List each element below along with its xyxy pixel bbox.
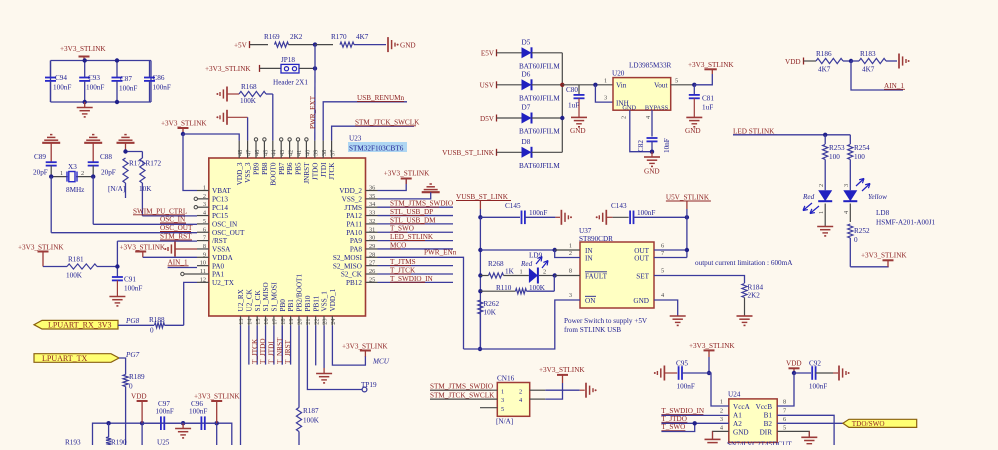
svg-text:100nF: 100nF <box>677 383 695 391</box>
svg-text:LPUART_RX_3V3: LPUART_RX_3V3 <box>48 321 112 330</box>
svg-text:1: 1 <box>818 211 825 214</box>
svg-text:PB11: PB11 <box>312 295 320 311</box>
svg-text:+3V3_STLINK: +3V3_STLINK <box>161 120 207 128</box>
svg-text:JTCK: JTCK <box>328 162 336 180</box>
svg-text:VSS_2: VSS_2 <box>342 195 363 203</box>
svg-text:18: 18 <box>280 319 287 325</box>
svg-text:3: 3 <box>604 95 607 102</box>
svg-text:21: 21 <box>305 319 312 325</box>
svg-text:output current limitation : 60: output current limitation : 600mA <box>695 259 793 267</box>
svg-text:U2_RX: U2_RX <box>237 288 245 311</box>
svg-text:OSC_IN: OSC_IN <box>212 221 238 229</box>
svg-text:FAULT: FAULT <box>585 272 608 280</box>
svg-text:100K: 100K <box>66 272 83 280</box>
svg-text:STL_USB_DP: STL_USB_DP <box>390 208 433 216</box>
svg-text:20pF: 20pF <box>101 169 116 177</box>
svg-text:25: 25 <box>369 276 375 283</box>
svg-text:STL_USB_DM: STL_USB_DM <box>390 216 436 224</box>
svg-text:100K: 100K <box>529 284 546 292</box>
svg-text:1: 1 <box>604 78 607 85</box>
svg-text:C80: C80 <box>566 86 578 94</box>
svg-text:C87: C87 <box>120 75 132 83</box>
svg-text:17: 17 <box>272 319 279 325</box>
svg-text:PA10: PA10 <box>346 229 362 237</box>
svg-text:OSC_OUT: OSC_OUT <box>160 224 193 232</box>
svg-text:MCO: MCO <box>390 241 406 249</box>
svg-text:AIN_1: AIN_1 <box>168 258 188 266</box>
svg-text:S1_CK: S1_CK <box>254 290 262 312</box>
svg-text:C94: C94 <box>55 74 67 82</box>
svg-text:LPUART_TX: LPUART_TX <box>42 354 88 363</box>
svg-text:5: 5 <box>203 218 206 225</box>
svg-text:47: 47 <box>246 150 253 156</box>
svg-text:2: 2 <box>81 170 84 177</box>
svg-text:4K7: 4K7 <box>356 33 369 41</box>
svg-text:Red: Red <box>520 260 533 268</box>
svg-text:USV: USV <box>480 82 495 90</box>
svg-text:D5V: D5V <box>480 115 495 123</box>
svg-text:U2_TX: U2_TX <box>212 279 235 287</box>
svg-text:Red: Red <box>802 193 815 201</box>
svg-text:VDDA: VDDA <box>212 254 234 262</box>
svg-text:36: 36 <box>369 185 375 192</box>
svg-text:Power Switch to supply +5V: Power Switch to supply +5V <box>564 317 648 325</box>
svg-text:4K7: 4K7 <box>818 66 831 74</box>
svg-text:VDD: VDD <box>131 393 147 401</box>
svg-text:5: 5 <box>675 78 678 85</box>
svg-text:PB1: PB1 <box>287 299 295 312</box>
svg-text:from STLINK USB: from STLINK USB <box>564 326 621 334</box>
svg-text:BAT60JFILM: BAT60JFILM <box>519 62 560 70</box>
svg-text:14: 14 <box>246 318 253 325</box>
svg-text:100nF: 100nF <box>156 408 174 416</box>
svg-text:SWIM_PU_CTRL: SWIM_PU_CTRL <box>133 207 187 215</box>
svg-text:C145: C145 <box>505 202 521 210</box>
svg-text:OSC_OUT: OSC_OUT <box>212 229 245 237</box>
svg-text:100nF: 100nF <box>119 85 137 93</box>
svg-text:100nF: 100nF <box>153 84 171 92</box>
svg-text:11: 11 <box>200 268 206 275</box>
svg-text:T_NRST: T_NRST <box>276 337 284 364</box>
svg-text:+3V3_STLINK: +3V3_STLINK <box>689 342 735 350</box>
svg-text:U25: U25 <box>157 439 170 446</box>
svg-text:10nF: 10nF <box>663 138 671 153</box>
svg-text:VUSB_ST_LINK: VUSB_ST_LINK <box>442 149 495 157</box>
svg-text:1: 1 <box>569 243 572 250</box>
svg-text:R190: R190 <box>111 439 127 446</box>
svg-text:GND: GND <box>633 297 649 305</box>
svg-text:6: 6 <box>783 416 786 423</box>
svg-text:TDO/SWO: TDO/SWO <box>852 420 885 428</box>
svg-text:U20: U20 <box>612 70 625 78</box>
svg-text:[N/A]: [N/A] <box>108 185 125 193</box>
svg-text:+3V3_STLINK: +3V3_STLINK <box>861 252 907 260</box>
svg-text:JP18: JP18 <box>281 56 295 64</box>
svg-text:31: 31 <box>369 226 375 233</box>
svg-text:0: 0 <box>854 236 858 244</box>
svg-text:5: 5 <box>783 425 786 432</box>
svg-text:42: 42 <box>288 150 295 156</box>
svg-text:37: 37 <box>330 150 337 156</box>
svg-text:2: 2 <box>621 116 628 119</box>
svg-text:PB8: PB8 <box>261 162 269 175</box>
svg-text:PWR_EXT: PWR_EXT <box>309 95 317 129</box>
svg-text:100nF: 100nF <box>809 383 827 391</box>
svg-text:100nF: 100nF <box>86 84 104 92</box>
svg-text:1K: 1K <box>505 268 515 276</box>
svg-text:15: 15 <box>255 319 262 325</box>
svg-text:USB_RENUMn: USB_RENUMn <box>357 94 405 102</box>
svg-text:STM32F103CBT6: STM32F103CBT6 <box>349 145 404 153</box>
svg-text:VUSB_ST_LINK: VUSB_ST_LINK <box>456 193 509 201</box>
svg-text:R254: R254 <box>854 144 870 152</box>
svg-text:Vin: Vin <box>616 82 627 90</box>
svg-text:U5V_STLINK: U5V_STLINK <box>666 194 710 202</box>
svg-text:100K: 100K <box>303 417 320 425</box>
svg-text:PA0: PA0 <box>212 262 225 270</box>
svg-text:100: 100 <box>829 153 840 161</box>
svg-text:PB12: PB12 <box>346 279 362 287</box>
svg-text:AIN_1: AIN_1 <box>884 82 904 90</box>
svg-text:GND: GND <box>400 42 416 50</box>
svg-text:STM_JTMS_SWDIO: STM_JTMS_SWDIO <box>390 200 453 208</box>
svg-text:+3V3_STLINK: +3V3_STLINK <box>342 342 388 350</box>
svg-text:B1: B1 <box>764 412 773 420</box>
svg-text:33: 33 <box>369 210 375 217</box>
svg-text:PWR_ENn: PWR_ENn <box>424 249 457 257</box>
svg-text:8MHz: 8MHz <box>66 186 84 194</box>
svg-text:1: 1 <box>520 269 523 276</box>
svg-text:VDD_1: VDD_1 <box>329 288 337 311</box>
svg-text:PA1: PA1 <box>212 271 225 279</box>
svg-text:PC15: PC15 <box>212 212 228 220</box>
svg-text:5: 5 <box>501 406 504 413</box>
svg-text:BOOT0: BOOT0 <box>269 162 277 186</box>
svg-text:C82: C82 <box>637 140 645 152</box>
svg-text:BAT60JFILM: BAT60JFILM <box>519 162 560 170</box>
svg-text:R171: R171 <box>129 160 145 168</box>
svg-text:S1_MISO: S1_MISO <box>262 282 270 311</box>
svg-text:JNRST: JNRST <box>303 162 311 184</box>
svg-text:R189: R189 <box>129 373 145 381</box>
svg-text:R172: R172 <box>146 160 162 168</box>
svg-text:7: 7 <box>661 250 664 257</box>
svg-text:D5: D5 <box>522 38 531 46</box>
svg-text:T_JTDI: T_JTDI <box>268 341 276 364</box>
svg-text:2K2: 2K2 <box>290 33 303 41</box>
svg-text:48: 48 <box>237 150 244 156</box>
svg-text:R188: R188 <box>149 316 165 324</box>
svg-text:A1: A1 <box>733 412 742 420</box>
svg-text:PA9: PA9 <box>350 237 363 245</box>
svg-text:R168: R168 <box>241 83 257 91</box>
svg-text:VBAT: VBAT <box>212 187 231 195</box>
svg-text:20: 20 <box>297 319 304 325</box>
svg-text:C95: C95 <box>676 360 688 368</box>
svg-text:32: 32 <box>369 218 375 225</box>
svg-text:VSSA: VSSA <box>212 246 231 254</box>
svg-text:C89: C89 <box>34 153 46 161</box>
svg-text:B2: B2 <box>764 420 773 428</box>
svg-text:PC14: PC14 <box>212 204 228 212</box>
svg-text:R110: R110 <box>496 284 512 292</box>
svg-text:VccB: VccB <box>756 403 773 411</box>
svg-text:VSS_1: VSS_1 <box>321 291 329 312</box>
svg-text:34: 34 <box>369 201 376 208</box>
svg-text:CN16: CN16 <box>497 375 515 383</box>
svg-text:C92: C92 <box>809 360 821 368</box>
svg-text:7: 7 <box>203 235 206 242</box>
svg-text:A2: A2 <box>733 420 742 428</box>
svg-text:3: 3 <box>501 397 504 404</box>
svg-text:+3V3_STLINK: +3V3_STLINK <box>60 45 106 53</box>
svg-text:46: 46 <box>254 150 261 156</box>
svg-text:STM_JTCK_SWCLK: STM_JTCK_SWCLK <box>355 118 420 126</box>
svg-text:PA12: PA12 <box>346 212 362 220</box>
svg-text:T_JTMS: T_JTMS <box>390 258 416 266</box>
svg-text:STM_JTMS_SWDIO: STM_JTMS_SWDIO <box>430 383 493 391</box>
svg-text:43: 43 <box>279 150 286 156</box>
svg-text:2: 2 <box>543 269 546 276</box>
svg-text:JTDI: JTDI <box>320 162 328 177</box>
svg-text:1: 1 <box>720 399 723 406</box>
svg-text:U23: U23 <box>349 135 362 143</box>
svg-text:R187: R187 <box>303 407 319 415</box>
svg-text:JTDO: JTDO <box>311 163 319 181</box>
svg-text:3: 3 <box>203 201 206 208</box>
svg-text:40: 40 <box>304 150 311 156</box>
svg-text:2: 2 <box>519 388 522 395</box>
svg-text:SET: SET <box>636 272 649 280</box>
svg-text:GND: GND <box>733 429 749 437</box>
svg-text:10: 10 <box>200 260 206 267</box>
svg-text:/RST: /RST <box>212 237 228 245</box>
svg-text:S2_CK: S2_CK <box>341 271 363 279</box>
svg-text:T_SWO: T_SWO <box>390 225 414 233</box>
svg-text:R181: R181 <box>68 256 84 264</box>
svg-text:C88: C88 <box>100 153 112 161</box>
svg-text:41: 41 <box>296 150 303 156</box>
svg-text:GND: GND <box>644 168 660 176</box>
svg-text:1uF: 1uF <box>568 102 579 110</box>
svg-text:PG8: PG8 <box>125 317 140 325</box>
svg-text:OUT: OUT <box>634 254 649 262</box>
svg-text:T_JTCK: T_JTCK <box>251 338 259 364</box>
svg-text:T_JTCK: T_JTCK <box>390 266 416 274</box>
svg-text:R184: R184 <box>748 284 764 292</box>
svg-text:VDD: VDD <box>785 58 801 66</box>
svg-text:20pF: 20pF <box>33 169 48 177</box>
svg-text:6: 6 <box>203 226 206 233</box>
svg-text:1uF: 1uF <box>702 104 713 112</box>
svg-text:DIR: DIR <box>760 429 773 437</box>
svg-text:R170: R170 <box>331 33 347 41</box>
svg-text:29: 29 <box>369 243 375 250</box>
svg-text:MCU: MCU <box>372 358 390 366</box>
svg-text:PB0: PB0 <box>279 299 287 312</box>
svg-text:+3V3_STLINK: +3V3_STLINK <box>205 65 251 73</box>
svg-text:Header 2X1: Header 2X1 <box>273 79 308 87</box>
svg-text:R186: R186 <box>816 50 832 58</box>
svg-text:HSMF-A201-A00J1: HSMF-A201-A00J1 <box>876 219 936 227</box>
svg-text:0: 0 <box>129 383 133 391</box>
svg-text:100nF: 100nF <box>189 408 207 416</box>
svg-text:1: 1 <box>60 170 63 177</box>
svg-text:LD8: LD8 <box>876 209 890 217</box>
svg-text:45: 45 <box>262 150 269 156</box>
svg-text:12: 12 <box>200 276 206 283</box>
svg-text:T_SWDIO_IN: T_SWDIO_IN <box>390 275 434 283</box>
svg-text:PG7: PG7 <box>125 351 140 359</box>
svg-text:13: 13 <box>238 319 245 325</box>
svg-text:+5V: +5V <box>234 42 248 50</box>
svg-text:PB7: PB7 <box>278 162 286 175</box>
svg-text:24: 24 <box>330 318 337 325</box>
svg-text:JTMS: JTMS <box>344 204 362 212</box>
svg-text:10K: 10K <box>139 185 152 193</box>
svg-text:2: 2 <box>720 408 723 415</box>
svg-text:U2_CK: U2_CK <box>245 288 253 311</box>
svg-text:9: 9 <box>203 251 206 258</box>
svg-text:23: 23 <box>322 319 329 325</box>
svg-text:PB6: PB6 <box>286 162 294 175</box>
svg-text:100nF: 100nF <box>124 285 142 293</box>
svg-text:PA8: PA8 <box>350 246 363 254</box>
svg-text:U37: U37 <box>579 227 592 235</box>
svg-text:LED_STLINK: LED_STLINK <box>390 233 434 241</box>
svg-text:VDD: VDD <box>786 360 802 368</box>
svg-text:30: 30 <box>369 235 375 242</box>
svg-text:LED STLINK: LED STLINK <box>733 127 775 135</box>
svg-text:ON: ON <box>585 297 596 305</box>
svg-text:SN74LVC2T45DCUT: SN74LVC2T45DCUT <box>727 441 792 446</box>
svg-text:7: 7 <box>783 408 786 415</box>
svg-text:19: 19 <box>288 319 295 325</box>
svg-text:LD3985M33R: LD3985M33R <box>629 62 672 70</box>
svg-text:BAT60JFILM: BAT60JFILM <box>519 128 560 136</box>
svg-text:PB2/BOOT1: PB2/BOOT1 <box>296 274 304 312</box>
svg-text:C86: C86 <box>153 74 165 82</box>
svg-text:PC13: PC13 <box>212 195 228 203</box>
svg-text:8: 8 <box>569 268 572 275</box>
svg-text:R268: R268 <box>488 260 504 268</box>
svg-text:T_JTDO: T_JTDO <box>259 338 267 364</box>
svg-text:2: 2 <box>818 184 825 187</box>
svg-text:IN: IN <box>585 254 593 262</box>
svg-text:PB9: PB9 <box>253 162 261 175</box>
svg-text:100K: 100K <box>240 97 257 105</box>
svg-text:R252: R252 <box>854 227 870 235</box>
svg-text:28: 28 <box>369 251 375 258</box>
svg-text:100nF: 100nF <box>53 84 71 92</box>
svg-text:D8: D8 <box>522 138 531 146</box>
svg-text:5: 5 <box>661 268 664 275</box>
svg-text:39: 39 <box>313 150 320 156</box>
svg-text:BAT60JFILM: BAT60JFILM <box>519 94 560 102</box>
svg-text:GND: GND <box>570 127 586 135</box>
svg-text:+3V3_STLINK: +3V3_STLINK <box>18 243 64 251</box>
svg-text:4K7: 4K7 <box>862 66 875 74</box>
svg-text:D6: D6 <box>522 70 531 78</box>
svg-text:S1_MOSI: S1_MOSI <box>271 282 279 312</box>
svg-text:100nF: 100nF <box>637 209 655 217</box>
svg-text:T_SWO: T_SWO <box>661 423 685 431</box>
svg-text:U24: U24 <box>728 391 741 399</box>
svg-text:R183: R183 <box>860 50 876 58</box>
svg-text:PB5: PB5 <box>295 162 303 175</box>
svg-text:C93: C93 <box>88 74 100 82</box>
svg-text:3: 3 <box>569 292 572 299</box>
svg-text:38: 38 <box>321 150 328 156</box>
svg-text:STM_RST: STM_RST <box>160 232 192 240</box>
svg-text:2K2: 2K2 <box>748 292 761 300</box>
svg-text:VDD_3: VDD_3 <box>236 162 244 185</box>
svg-text:2: 2 <box>569 250 572 257</box>
svg-text:10K: 10K <box>484 309 497 317</box>
svg-text:[N/A]: [N/A] <box>496 418 513 426</box>
svg-text:PB10: PB10 <box>304 295 312 311</box>
svg-text:26: 26 <box>369 268 375 275</box>
svg-text:1: 1 <box>203 185 206 192</box>
svg-text:R169: R169 <box>264 33 280 41</box>
svg-text:PA11: PA11 <box>347 221 363 229</box>
svg-text:16: 16 <box>263 319 270 325</box>
svg-text:3: 3 <box>720 416 723 423</box>
svg-text:100: 100 <box>854 153 865 161</box>
svg-text:STM_JTCK_SWCLK: STM_JTCK_SWCLK <box>430 391 495 399</box>
svg-text:E5V: E5V <box>481 50 495 58</box>
svg-text:T_JTDO: T_JTDO <box>661 415 687 423</box>
svg-text:VSS_3: VSS_3 <box>244 162 252 183</box>
svg-text:+3V3_STLINK: +3V3_STLINK <box>384 169 430 177</box>
svg-text:100nF: 100nF <box>529 209 547 217</box>
svg-text:8: 8 <box>203 243 206 250</box>
svg-text:+3V3_STLINK: +3V3_STLINK <box>539 366 585 374</box>
svg-text:R193: R193 <box>65 439 81 446</box>
svg-text:3: 3 <box>843 184 850 187</box>
svg-text:BYPASS: BYPASS <box>645 104 669 111</box>
svg-text:VDD_2: VDD_2 <box>339 187 362 195</box>
svg-text:+3V3_STLINK: +3V3_STLINK <box>120 244 166 252</box>
svg-text:2: 2 <box>203 193 206 200</box>
svg-text:C143: C143 <box>611 202 627 210</box>
svg-text:S2_MOSI: S2_MOSI <box>333 254 363 262</box>
svg-text:OSC_IN: OSC_IN <box>160 216 186 224</box>
svg-text:X3: X3 <box>68 163 77 171</box>
svg-text:0: 0 <box>150 327 154 335</box>
svg-text:1: 1 <box>501 388 504 395</box>
svg-text:LD9: LD9 <box>529 251 543 259</box>
svg-text:8: 8 <box>783 399 786 406</box>
svg-text:R253: R253 <box>829 144 845 152</box>
svg-text:VccA: VccA <box>733 403 751 411</box>
svg-text:S2_MISO: S2_MISO <box>333 262 362 270</box>
svg-text:27: 27 <box>369 260 375 267</box>
svg-text:Yellow: Yellow <box>868 193 887 201</box>
svg-text:Vout: Vout <box>654 82 667 90</box>
svg-text:C81: C81 <box>702 95 714 103</box>
svg-text:+3V3_STLINK: +3V3_STLINK <box>688 61 734 69</box>
svg-text:R262: R262 <box>484 300 500 308</box>
svg-text:22: 22 <box>313 319 320 325</box>
svg-text:35: 35 <box>369 193 375 200</box>
svg-text:C91: C91 <box>124 276 136 284</box>
svg-text:6: 6 <box>661 243 664 250</box>
svg-text:GND: GND <box>685 127 701 135</box>
svg-text:D7: D7 <box>522 104 531 112</box>
svg-text:44: 44 <box>271 149 278 156</box>
svg-text:+3V3_STLINK: +3V3_STLINK <box>194 393 240 401</box>
